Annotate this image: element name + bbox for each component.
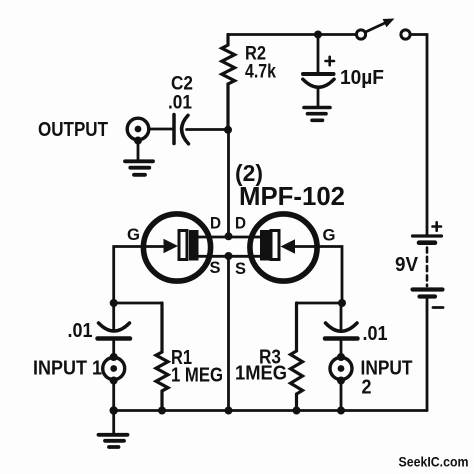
input jack J2 (330, 353, 352, 385)
node R1 / rail (158, 407, 166, 415)
svg-text:1 MEG: 1 MEG (171, 365, 223, 387)
svg-text:4.7k: 4.7k (245, 62, 276, 83)
node top rail / 10uF junction (314, 31, 322, 39)
node rail left end (110, 406, 118, 414)
node jack2 / rail (337, 407, 345, 415)
svg-text:.01: .01 (168, 93, 192, 114)
resistor R3 (291, 303, 303, 411)
label + (10uF) (326, 57, 335, 65)
transistor Q2 (right MPF-102) (250, 214, 317, 281)
capacitor C3 .01 input 2 (325, 303, 358, 357)
svg-text:9V: 9V (395, 254, 419, 276)
wire battery to bottom rail (426, 297, 429, 411)
battery B1 9V (413, 236, 443, 297)
node R3 / rail (293, 407, 301, 415)
svg-text:C2: C2 (171, 74, 193, 95)
switch S1 (356, 19, 410, 40)
wire jack1 to bottom rail (112, 381, 115, 411)
capacitor C4 10uF (303, 35, 334, 106)
svg-text:S: S (210, 258, 221, 277)
wire C2 to drain node (187, 128, 229, 131)
svg-text:2: 2 (362, 377, 372, 399)
wire bottom rail (114, 409, 427, 412)
svg-text:MPF-102: MPF-102 (239, 181, 345, 211)
wire gate2 to R3 (297, 302, 343, 305)
wire top rail (228, 33, 357, 36)
label + (battery) (433, 222, 442, 230)
svg-text:SeekIC.com: SeekIC.com (399, 455, 469, 470)
wire source rail (198, 255, 261, 258)
svg-text:10µF: 10µF (340, 67, 384, 89)
wire output jack to ground (134, 137, 142, 145)
wire output jack to C2 (149, 128, 172, 131)
wire jack2 to bottom rail (340, 381, 343, 411)
ground below 10uF (304, 108, 330, 121)
node drain junction (224, 126, 232, 134)
label - (battery) (433, 306, 443, 309)
wire switch to battery top (411, 35, 428, 236)
input jack J1 (103, 353, 125, 385)
svg-text:G: G (323, 226, 336, 245)
node center column / rail (225, 407, 233, 415)
svg-text:1MEG: 1MEG (235, 363, 287, 385)
capacitor C2 (174, 115, 189, 144)
node gate 2 (338, 299, 346, 307)
svg-text:OUTPUT: OUTPUT (38, 119, 108, 141)
node S (225, 252, 233, 260)
svg-text:D: D (235, 214, 246, 233)
svg-text:G: G (127, 225, 140, 244)
node gate 1 (110, 299, 118, 307)
resistor R1 (156, 303, 168, 411)
ground below output jack (125, 161, 153, 175)
ground below bottom rail (99, 435, 128, 447)
node D (225, 232, 233, 240)
svg-text:INPUT 1: INPUT 1 (33, 358, 102, 380)
transistor Q1 (left MPF-102) (143, 214, 211, 281)
wire gate1 to R1 (114, 302, 162, 305)
wire center column upper (drain) (227, 130, 230, 236)
svg-text:D: D (210, 214, 221, 233)
capacitor C1 .01 input 1 (98, 303, 131, 357)
wire rail-left ground stub (112, 411, 115, 434)
output jack J3 (127, 118, 149, 140)
wire right gate (317, 247, 343, 304)
resistor R2 (222, 35, 235, 131)
wire center column lower (source) (227, 256, 230, 411)
svg-text:S: S (235, 259, 246, 278)
svg-text:.01: .01 (363, 323, 388, 345)
wire left gate (114, 247, 144, 304)
wire drain rail (198, 236, 261, 239)
svg-text:.01: .01 (68, 320, 93, 342)
